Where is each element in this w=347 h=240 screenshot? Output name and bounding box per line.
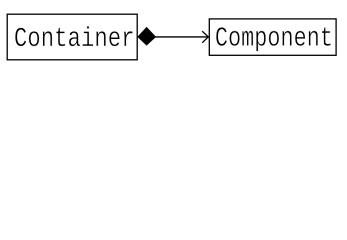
association line [155,36,208,38]
class box Container [7,14,137,60]
composition diamond [138,28,155,45]
class box Component [209,19,336,55]
label Component [216,27,331,51]
label Container [15,26,132,46]
arrowhead [202,31,208,43]
